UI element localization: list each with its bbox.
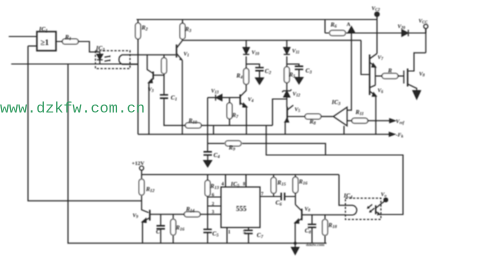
svg-text:R3: R3 xyxy=(184,27,192,33)
svg-text:V8: V8 xyxy=(419,72,425,78)
svg-text:V20: V20 xyxy=(398,24,406,30)
svg-text:C1: C1 xyxy=(171,96,177,102)
svg-text:V1: V1 xyxy=(184,52,190,58)
svg-text:R13: R13 xyxy=(209,184,219,190)
svg-text:VC2: VC2 xyxy=(372,6,380,12)
svg-text:V13: V13 xyxy=(211,89,219,95)
svg-text:V6: V6 xyxy=(378,88,384,94)
svg-text:R9: R9 xyxy=(228,145,236,151)
svg-text:VCC: VCC xyxy=(419,19,428,25)
svg-text:C3: C3 xyxy=(306,68,313,74)
svg-text:C4: C4 xyxy=(214,153,221,159)
svg-text:Vo: Vo xyxy=(381,192,387,198)
svg-text:R18: R18 xyxy=(327,223,337,229)
svg-text:V11: V11 xyxy=(292,49,299,55)
svg-text:R16: R16 xyxy=(175,226,185,232)
svg-text:www.dzkfw.com.cn: www.dzkfw.com.cn xyxy=(0,100,145,118)
svg-text:C8: C8 xyxy=(305,228,312,234)
svg-text:V7: V7 xyxy=(378,55,385,61)
svg-text:R2: R2 xyxy=(141,26,149,32)
svg-text:C5: C5 xyxy=(212,231,219,237)
svg-text:≥1: ≥1 xyxy=(41,38,49,47)
svg-text:dzkfw.com: dzkfw.com xyxy=(306,242,325,247)
svg-text:C7: C7 xyxy=(257,233,264,239)
svg-text:V3: V3 xyxy=(148,87,154,93)
svg-text:555: 555 xyxy=(236,205,247,213)
svg-text:R15: R15 xyxy=(276,180,286,186)
svg-text:V5: V5 xyxy=(295,107,301,113)
svg-text:R8: R8 xyxy=(309,119,317,125)
svg-text:R7: R7 xyxy=(231,113,239,119)
svg-text:R: R xyxy=(387,69,392,75)
svg-text:IC4: IC4 xyxy=(343,194,353,200)
svg-text:+12V: +12V xyxy=(132,161,145,167)
svg-text:IC3: IC3 xyxy=(331,100,341,106)
svg-text:V9: V9 xyxy=(133,213,139,219)
svg-text:-Fk: -Fk xyxy=(396,133,404,139)
svg-text:R11: R11 xyxy=(355,110,364,116)
svg-text:Vref: Vref xyxy=(396,119,405,125)
svg-text:IC5: IC5 xyxy=(230,182,240,188)
svg-text:IC1: IC1 xyxy=(38,27,48,33)
svg-text:R6: R6 xyxy=(330,23,338,29)
svg-text:V12: V12 xyxy=(293,92,301,98)
svg-text:R5: R5 xyxy=(288,73,296,79)
svg-text:V4: V4 xyxy=(248,97,254,103)
svg-text:IC2: IC2 xyxy=(95,46,105,52)
svg-text:R4: R4 xyxy=(235,74,243,80)
svg-text:R14: R14 xyxy=(185,207,195,213)
svg-text:V10: V10 xyxy=(252,50,260,56)
svg-text:C2: C2 xyxy=(265,69,272,75)
svg-text:R1: R1 xyxy=(64,35,71,41)
svg-text:V8: V8 xyxy=(305,207,311,213)
svg-text:R10: R10 xyxy=(188,119,198,125)
svg-text:R16: R16 xyxy=(298,179,308,185)
svg-text:R12: R12 xyxy=(145,187,155,193)
svg-text:C6: C6 xyxy=(276,200,283,206)
svg-text:A: A xyxy=(347,22,351,28)
